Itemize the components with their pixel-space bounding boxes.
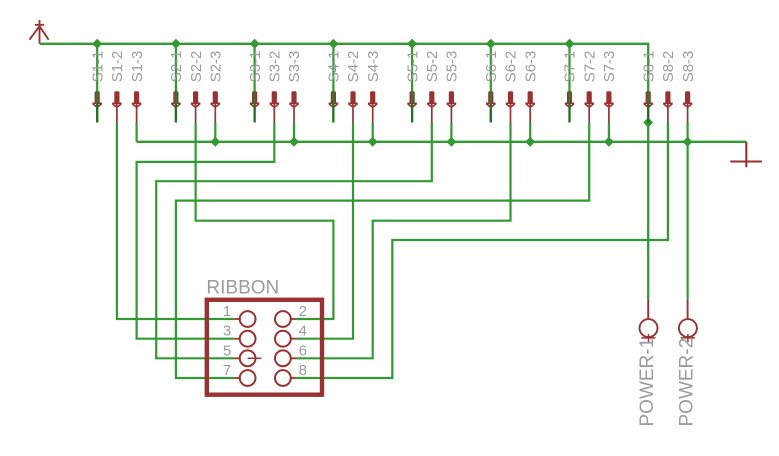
connector pin S1-1 xyxy=(92,91,102,123)
connector pin S7-3 xyxy=(604,91,614,122)
svg-text:S5-3: S5-3 xyxy=(444,51,461,83)
svg-text:S7-3: S7-3 xyxy=(601,51,618,83)
svg-text:S8-2: S8-2 xyxy=(660,51,677,83)
wire S8-2 to ribbon pin 8 xyxy=(296,122,668,378)
svg-text:S5-1: S5-1 xyxy=(404,51,421,83)
connector pin S4-3 xyxy=(368,91,378,122)
connector pin S4-1 xyxy=(329,91,339,123)
svg-text:S2-3: S2-3 xyxy=(208,51,225,83)
svg-text:3: 3 xyxy=(223,323,231,340)
svg-text:S1-3: S1-3 xyxy=(129,51,146,83)
wire S5-2 to ribbon pin 5 xyxy=(156,122,432,358)
junction VCC bus / S7-1 xyxy=(565,39,575,49)
wire VCC drop to S2-1 xyxy=(175,44,177,123)
power pin POWER-2 xyxy=(679,299,697,342)
svg-text:4: 4 xyxy=(299,323,307,340)
svg-text:S6-2: S6-2 xyxy=(503,51,520,83)
wire VCC drop to S5-1 xyxy=(411,44,413,123)
wire VCC drop to S4-1 xyxy=(332,44,334,123)
svg-text:S3-3: S3-3 xyxy=(286,51,303,83)
junction GND bus / S3-3 xyxy=(289,137,299,147)
connector pin S6-3 xyxy=(525,91,535,122)
connector pin S3-1 xyxy=(250,91,260,123)
svg-text:S2-1: S2-1 xyxy=(168,51,185,83)
ribbon pin 7 xyxy=(234,370,255,386)
connector pin S3-3 xyxy=(289,91,299,122)
connector pin S6-2 xyxy=(506,91,516,122)
wire S6-3 to GND bus xyxy=(529,122,531,142)
wire S7-2 to ribbon pin 7 xyxy=(176,122,589,378)
svg-text:S4-1: S4-1 xyxy=(326,51,343,83)
ribbon pin 1 xyxy=(234,311,255,327)
ribbon pin 4 xyxy=(275,331,296,347)
wire S2-2 to ribbon pin 2 xyxy=(196,122,334,319)
connector pin S8-1 xyxy=(643,91,653,123)
svg-text:S1-1: S1-1 xyxy=(89,51,106,83)
wire S1-2 to ribbon pin 1 xyxy=(117,122,234,319)
wire GND bus xyxy=(137,141,747,143)
supply symbol VCC arrow xyxy=(29,20,48,44)
connector pin S2-2 xyxy=(191,91,201,122)
junction GND bus / S7-3 xyxy=(604,137,614,147)
ribbon pin 8 xyxy=(275,370,296,386)
wire S1-3 to GND bus xyxy=(136,122,138,142)
ribbon pin 3 xyxy=(234,331,255,347)
junction VCC bus / S2-1 xyxy=(171,39,181,49)
ground symbol GND xyxy=(730,142,762,167)
wire S8-3 to GND bus xyxy=(686,122,688,142)
junction GND bus / S4-3 xyxy=(368,137,378,147)
wire S3-2 to ribbon pin 3 xyxy=(137,122,275,338)
connector pin S2-1 xyxy=(171,91,181,123)
wire S3-3 to GND bus xyxy=(293,122,295,142)
wire S4-3 to GND bus xyxy=(372,122,374,142)
svg-text:1: 1 xyxy=(223,303,231,320)
junction GND bus / S2-3 xyxy=(210,137,220,147)
junction VCC bus / S4-1 xyxy=(328,39,338,49)
svg-text:S6-1: S6-1 xyxy=(483,51,500,83)
wire S5-3 to GND bus xyxy=(450,122,452,142)
connector pin S7-1 xyxy=(565,91,575,123)
connector pin S8-2 xyxy=(663,91,673,122)
svg-text:S5-2: S5-2 xyxy=(424,51,441,83)
wire S6-2 to ribbon pin 6 xyxy=(296,122,510,358)
svg-text:S4-3: S4-3 xyxy=(365,51,382,83)
connector pin S5-2 xyxy=(427,91,437,122)
wire VCC drop to S6-1 xyxy=(490,44,492,123)
connector pin S1-2 xyxy=(112,91,122,122)
connector pin S5-3 xyxy=(447,91,457,122)
wire VCC drop to S1-1 xyxy=(96,44,98,123)
svg-text:S1-2: S1-2 xyxy=(109,51,126,83)
wire VCC bus from supply to S8-1 then down to POWER-1 xyxy=(40,44,648,300)
svg-text:RIBBON: RIBBON xyxy=(206,277,279,298)
connector pin S7-2 xyxy=(584,91,594,122)
connector RIBBON box U1 xyxy=(207,300,322,395)
ribbon pin 2 xyxy=(275,311,296,327)
ribbon pin 5 name tick xyxy=(248,357,262,359)
ribbon pin 6 xyxy=(275,350,296,366)
ribbon pin 5 xyxy=(234,350,255,366)
svg-text:S7-2: S7-2 xyxy=(581,51,598,83)
svg-text:7: 7 xyxy=(223,362,231,379)
svg-text:2: 2 xyxy=(299,303,307,320)
wire GND bus to POWER-2 xyxy=(686,142,688,300)
connector pin S3-2 xyxy=(270,91,280,122)
svg-text:6: 6 xyxy=(299,342,307,359)
svg-text:8: 8 xyxy=(299,362,307,379)
junction VCC bus / S5-1 xyxy=(407,39,417,49)
wire VCC drop to S7-1 xyxy=(568,44,570,123)
svg-text:POWER-2: POWER-2 xyxy=(676,338,697,427)
junction VCC bus / S6-1 xyxy=(486,39,496,49)
wire S4-2 to ribbon pin 4 xyxy=(296,122,353,338)
junction GND bus / S8-3 xyxy=(683,137,693,147)
junction GND bus / S6-3 xyxy=(525,137,535,147)
svg-text:S7-1: S7-1 xyxy=(562,51,579,83)
svg-text:S4-2: S4-2 xyxy=(345,51,362,83)
svg-text:S8-3: S8-3 xyxy=(680,51,697,83)
wire S2-3 to GND bus xyxy=(214,122,216,142)
svg-text:S6-3: S6-3 xyxy=(522,51,539,83)
connector pin S4-2 xyxy=(348,91,358,122)
svg-text:5: 5 xyxy=(223,342,231,359)
wire VCC drop to S3-1 xyxy=(254,44,256,123)
junction S8-1 / POWER-1 wire xyxy=(643,118,653,128)
svg-text:S3-2: S3-2 xyxy=(267,51,284,83)
power pin POWER-1 xyxy=(640,299,658,342)
junction VCC bus / S3-1 xyxy=(250,39,260,49)
svg-text:S2-2: S2-2 xyxy=(188,51,205,83)
svg-text:POWER-1: POWER-1 xyxy=(637,338,658,427)
junction GND bus / S5-3 xyxy=(446,137,456,147)
svg-text:S3-1: S3-1 xyxy=(247,51,264,83)
connector pin S8-3 xyxy=(683,91,693,122)
connector pin S5-1 xyxy=(407,91,417,123)
junction VCC bus / S1-1 xyxy=(92,39,102,49)
connector pin S2-3 xyxy=(211,91,221,122)
connector pin S6-1 xyxy=(486,91,496,123)
wire S7-3 to GND bus xyxy=(608,122,610,142)
svg-text:S8-1: S8-1 xyxy=(640,51,657,83)
connector pin S1-3 xyxy=(132,91,142,122)
